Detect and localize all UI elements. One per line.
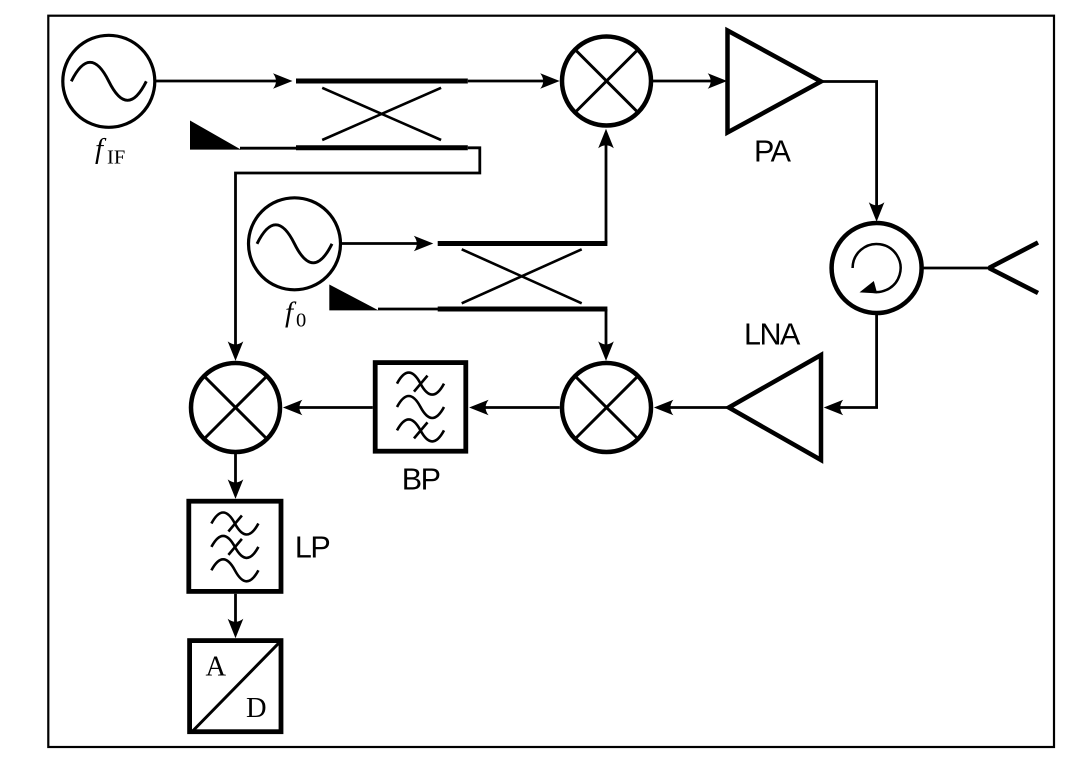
mixer M1 xyxy=(562,37,651,126)
antenna xyxy=(989,243,1038,294)
svg-text:IF: IF xyxy=(107,146,125,168)
ADC box xyxy=(190,641,281,732)
wire osc fIF to coupler1 xyxy=(155,80,279,83)
mixer M2 xyxy=(562,363,651,452)
coupler K1 cross xyxy=(322,88,441,140)
svg-text:0: 0 xyxy=(296,310,306,332)
wire LNA to mixer M2 xyxy=(668,406,729,409)
coupler K2 wedge xyxy=(329,285,378,311)
mixer M3 xyxy=(191,363,280,452)
coupler K1 bottom line xyxy=(240,146,468,149)
circulator xyxy=(832,223,922,313)
filter LP box xyxy=(189,501,281,591)
wire mixer M2 to BP xyxy=(483,406,560,409)
wire mixer M3 to LP xyxy=(234,453,237,486)
label f_0 xyxy=(285,297,306,332)
coupler K1 wedge xyxy=(190,121,241,150)
svg-text:A: A xyxy=(206,651,227,682)
wire PA to circulator xyxy=(819,82,877,209)
wire osc f0 to coupler2 xyxy=(341,242,420,245)
svg-text:D: D xyxy=(246,693,267,724)
svg-text:BP: BP xyxy=(402,462,440,496)
coupler K2 top line xyxy=(438,241,608,246)
oscillator f_0 xyxy=(249,198,341,290)
svg-text:LNA: LNA xyxy=(744,318,801,352)
coupler K2 cross xyxy=(462,249,582,303)
coupler K2 bottom line xyxy=(378,308,607,311)
filter LP waves xyxy=(211,513,258,582)
wire coupler2 up to mixer M1 xyxy=(605,143,608,244)
wire BP to mixer M3 xyxy=(297,406,373,409)
wire coupler2 down to mixer M2 xyxy=(605,309,608,347)
oscillator f_IF xyxy=(63,35,155,127)
wire circulator to LNA xyxy=(837,313,876,408)
wire circulator to antenna xyxy=(921,267,989,270)
amplifier PA xyxy=(728,31,822,133)
filter BP box xyxy=(375,363,466,452)
filter BP waves xyxy=(397,373,444,442)
circulator arrowhead xyxy=(860,281,878,293)
wire mixer M1 to PA xyxy=(653,80,714,83)
wire LP to ADC xyxy=(234,594,237,625)
label f_IF xyxy=(95,133,125,169)
ADC diagonal xyxy=(192,643,279,731)
wire coupler1 bottom to mixer M3 (routing) xyxy=(236,148,480,347)
svg-text:LP: LP xyxy=(295,530,329,564)
wire coupler1 to mixer M1 xyxy=(468,80,546,83)
svg-text:PA: PA xyxy=(754,135,792,169)
svg-text:f: f xyxy=(95,133,107,165)
amplifier LNA xyxy=(729,355,821,460)
coupler K1 top line xyxy=(296,79,468,84)
